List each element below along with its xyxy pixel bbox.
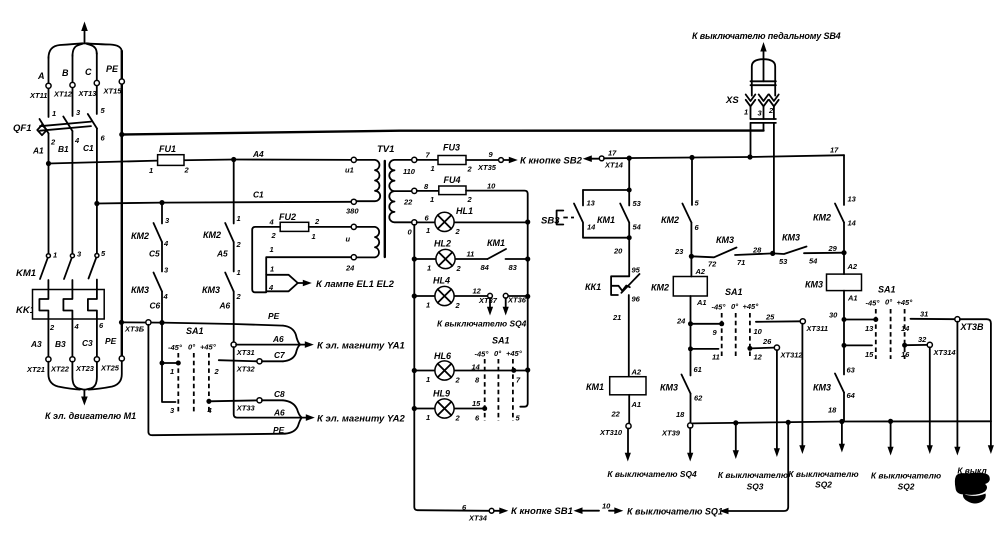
svg-text:XT25: XT25 (100, 364, 120, 373)
terminal XT36 (503, 293, 508, 298)
svg-text:КМ1: КМ1 (487, 238, 505, 248)
junction dot node 28 (770, 251, 775, 256)
wire top bus PE to XS pin3 (122, 131, 764, 135)
svg-text:К выключателю: К выключателю (871, 471, 941, 481)
svg-text:К кнопке SB2: К кнопке SB2 (520, 156, 583, 167)
svg-text:2: 2 (314, 217, 320, 226)
svg-text:PE: PE (105, 336, 117, 346)
svg-text:A2: A2 (631, 368, 642, 377)
contact KM3 72-71 labels (708, 235, 745, 269)
svg-text:64: 64 (847, 391, 856, 400)
svg-text:2: 2 (214, 367, 220, 376)
svg-text:11: 11 (712, 353, 720, 362)
wire stub 13 (844, 319, 876, 321)
arrow to YA2 (301, 414, 315, 421)
svg-text:10: 10 (754, 327, 763, 336)
svg-text:B3: B3 (55, 339, 66, 349)
svg-text:53: 53 (779, 257, 788, 266)
svg-text:FU2: FU2 (279, 212, 296, 222)
svg-text:HL6: HL6 (434, 351, 452, 361)
arrow to motor M1 (81, 390, 88, 406)
wire node20 to KK1 contact (628, 238, 630, 277)
svg-text:ХТ3В: ХТ3В (960, 322, 985, 332)
junction dot 26 on dash (747, 346, 752, 351)
switch SA1 middle positions (712, 287, 760, 359)
wire stub 11 (691, 348, 719, 350)
contact KM1 53-54 (597, 199, 642, 232)
terminal XT33 (257, 398, 262, 403)
wire XT32 to YA1 merge (262, 360, 283, 362)
svg-text:XT35: XT35 (477, 163, 497, 172)
arrow XT314 drop (927, 347, 933, 454)
svg-text:A2: A2 (695, 267, 706, 276)
svg-text:К выключателю: К выключателю (718, 470, 788, 480)
wire HL2 row (414, 258, 527, 260)
svg-text:20: 20 (613, 247, 623, 256)
svg-text:КМ3: КМ3 (782, 233, 800, 243)
junction dot 32 on dash (902, 343, 907, 348)
svg-text:XT23: XT23 (75, 364, 95, 373)
wire XT31 down to YA2 (234, 347, 301, 418)
wire node28 to node29 with contact KM3 53-54 (773, 247, 844, 255)
wire A5 column (233, 160, 235, 343)
svg-text:14: 14 (848, 219, 857, 228)
svg-text:SQ2: SQ2 (898, 482, 915, 492)
wire 22 to FU4 (417, 190, 439, 192)
core (384, 161, 386, 257)
arrow to button SB1 (494, 508, 508, 515)
svg-text:22: 22 (403, 198, 413, 207)
svg-text:24: 24 (345, 264, 355, 273)
svg-text:28: 28 (752, 246, 762, 255)
svg-text:B: B (62, 68, 69, 78)
wire node23 to KM2 coil (690, 256, 692, 276)
wire HL6 row (414, 370, 527, 372)
svg-text:2: 2 (50, 138, 56, 147)
terminal XT35 (499, 158, 504, 163)
svg-text:A6: A6 (273, 408, 285, 418)
svg-text:и: и (346, 235, 351, 244)
wire 110 to FU3 (417, 159, 438, 161)
junction dot SA1 contact1 (176, 361, 181, 366)
svg-text:84: 84 (481, 263, 490, 272)
supply arrow up (81, 22, 88, 44)
lamp HL2 (427, 239, 462, 274)
svg-text:XT22: XT22 (50, 365, 70, 374)
svg-text:380: 380 (346, 207, 359, 216)
svg-text:A3: A3 (30, 339, 42, 349)
svg-text:SA1: SA1 (186, 326, 204, 336)
svg-text:A6: A6 (219, 301, 231, 311)
svg-text:B1: B1 (58, 144, 69, 154)
svg-text:A5: A5 (216, 249, 228, 259)
svg-text:КМ3: КМ3 (660, 383, 678, 393)
terminal XT12 (70, 82, 75, 87)
terminal XT314 (927, 342, 932, 347)
contact KM1 83-84 (467, 238, 518, 272)
primary winding 1 (351, 157, 356, 162)
terminal XT34 (489, 508, 494, 513)
wire C1 down to KM1 (96, 129, 98, 254)
svg-text:КМ3: КМ3 (716, 235, 734, 245)
terminal XT14 (599, 156, 604, 161)
wire 24 tap to cable (266, 257, 351, 275)
svg-text:1: 1 (426, 301, 430, 310)
wire 10 FU4 to lamp bus (466, 191, 528, 407)
arrow down from XT39 (687, 428, 693, 462)
svg-text:XT37: XT37 (478, 296, 498, 305)
svg-text:15: 15 (472, 399, 481, 408)
fuse FU4 (430, 175, 473, 204)
junction dot 13 stub right SA1 (842, 317, 847, 322)
svg-text:+45°: +45° (743, 302, 760, 311)
wire KM1 branch down (583, 158, 629, 238)
svg-text:+45°: +45° (506, 349, 523, 358)
svg-text:14: 14 (472, 363, 481, 372)
arrow down from XT37 (478, 296, 498, 316)
svg-text:0°: 0° (731, 302, 739, 311)
primary winding 2 (351, 224, 356, 229)
svg-text:и1: и1 (345, 166, 354, 175)
switch SA1 lamp positions (475, 336, 523, 422)
connector XS (725, 42, 779, 253)
svg-text:К выключателю SQ4: К выключателю SQ4 (607, 469, 697, 479)
svg-text:4: 4 (74, 136, 80, 145)
svg-text:XS: XS (725, 95, 739, 106)
svg-text:ХТ310: ХТ310 (599, 428, 623, 437)
svg-text:26: 26 (762, 337, 772, 346)
junction dot node 23 (689, 254, 694, 259)
svg-text:ХТ33: ХТ33 (236, 404, 256, 413)
lamp HL1 (425, 206, 474, 236)
svg-text:2: 2 (271, 231, 277, 240)
svg-text:22: 22 (611, 410, 621, 419)
junction dot C6 on XT3B bus (159, 320, 164, 325)
svg-text:1: 1 (426, 413, 430, 422)
svg-text:15: 15 (865, 350, 874, 359)
wire XT3B down to PE bottom bus (148, 325, 285, 435)
svg-text:C1: C1 (253, 190, 264, 200)
svg-text:ХТ3Б: ХТ3Б (124, 325, 145, 334)
terminal XT311 (800, 319, 805, 324)
svg-text:-45°: -45° (866, 299, 881, 308)
XS arrow up to SB4 (763, 50, 765, 59)
arrow below node 64 (839, 422, 845, 453)
switch SA1 left dashed positions (168, 326, 217, 414)
junction dot mid drop (888, 419, 893, 424)
svg-text:2: 2 (467, 195, 473, 204)
junction dot C1 wire (94, 201, 99, 206)
junction dot A5 top (231, 157, 236, 162)
wires motor cable gather (48, 361, 121, 390)
terminal XT313 (955, 317, 960, 322)
wire lamp left bus from tap 0 (414, 225, 489, 511)
wire XT3B bus (122, 322, 284, 325)
arrow back from SB2 (583, 155, 600, 162)
wire phase B column (72, 55, 74, 116)
fuse FU3 (431, 143, 473, 174)
svg-text:10: 10 (602, 502, 611, 511)
svg-text:SQ3: SQ3 (747, 482, 764, 492)
terminal XT312 (774, 345, 779, 350)
svg-text:SQ2: SQ2 (815, 480, 832, 490)
svg-text:КМ2: КМ2 (131, 231, 149, 241)
arrow to lamps EL1 EL2 (298, 280, 312, 287)
svg-text:КМ3: КМ3 (131, 285, 149, 295)
svg-text:0°: 0° (885, 298, 893, 307)
svg-text:2: 2 (455, 376, 461, 385)
wire stub 15 (844, 344, 872, 346)
svg-text:31: 31 (920, 310, 928, 319)
svg-text:24: 24 (676, 317, 686, 326)
svg-text:C3: C3 (82, 338, 93, 348)
svg-text:К кнопке SB1: К кнопке SB1 (511, 506, 573, 517)
svg-text:К эл. магниту YA2: К эл. магниту YA2 (317, 414, 405, 425)
svg-text:XT11: XT11 (29, 91, 47, 100)
arrow from SB1 to SQ1 link (574, 502, 624, 515)
svg-text:ХТ32: ХТ32 (236, 365, 256, 374)
svg-text:КМ3: КМ3 (805, 280, 823, 290)
wire SA1 contact2 to XT32 (219, 360, 257, 361)
svg-text:2: 2 (455, 301, 461, 310)
svg-text:КМ2: КМ2 (661, 215, 679, 225)
svg-text:HL1: HL1 (456, 206, 473, 216)
svg-text:13: 13 (865, 324, 874, 333)
junction dots HL6 (412, 368, 417, 373)
junction dot top bus on PE (119, 132, 124, 137)
terminal XT13 (94, 80, 99, 85)
arrow XT313 drop (954, 322, 960, 456)
svg-text:К эл. двигателю М1: К эл. двигателю М1 (45, 411, 136, 421)
wire HL1 row (417, 221, 528, 223)
svg-text:TV1: TV1 (377, 144, 394, 155)
svg-text:C7: C7 (274, 350, 285, 360)
svg-text:A4: A4 (252, 149, 264, 159)
svg-text:К выключателю SQ4: К выключателю SQ4 (437, 319, 527, 329)
wire KM1 coil to XT310 (628, 395, 630, 424)
thermal relay KK1 heaters (16, 290, 104, 320)
svg-text:1: 1 (427, 264, 431, 273)
svg-text:ХТ312: ХТ312 (780, 351, 804, 360)
svg-text:23: 23 (674, 247, 684, 256)
svg-text:0°: 0° (494, 349, 502, 358)
ink smudge blob (955, 473, 990, 495)
svg-text:29: 29 (828, 244, 838, 253)
terminal XT15 (119, 79, 124, 84)
svg-text:FU1: FU1 (159, 144, 176, 154)
wire stub 9 (691, 323, 722, 325)
svg-text:21: 21 (612, 313, 621, 322)
svg-text:XT15: XT15 (103, 87, 123, 96)
junction dots HL2 (412, 256, 417, 261)
junction dot XS pin1 on wire17 (747, 154, 752, 159)
arrow down from XT310 (625, 428, 631, 461)
lamp HL4 (426, 276, 482, 311)
wire C6 to SA1 contacts 1-3 (162, 323, 178, 402)
wire C1 to TV1 (97, 202, 352, 204)
svg-text:2: 2 (455, 227, 461, 236)
thermal contact KK1 95-96 (585, 266, 641, 304)
terminal XT31 (231, 342, 236, 347)
wire FU2 to transformer U (309, 226, 352, 228)
svg-text:A2: A2 (847, 262, 858, 271)
svg-text:A: A (37, 71, 45, 81)
svg-text:1: 1 (170, 367, 174, 376)
svg-text:-45°: -45° (712, 303, 727, 312)
svg-text:1: 1 (426, 226, 430, 235)
svg-text:4: 4 (163, 292, 169, 301)
svg-text:1: 1 (426, 375, 430, 384)
svg-text:C1: C1 (83, 143, 94, 153)
wire PE column (121, 51, 123, 358)
arrow mid drop (888, 421, 894, 455)
svg-text:17: 17 (608, 149, 617, 158)
wires KK1 to motor terminals (48, 319, 97, 357)
wire C5 column (161, 203, 163, 323)
wire SA1 contact4 to XT33 (209, 399, 257, 402)
svg-text:2: 2 (184, 166, 190, 175)
junction dot node 20 (627, 235, 632, 240)
wire XT33 to YA2 merge (262, 399, 283, 401)
wire XT31 to YA1 merge (236, 344, 299, 346)
lamp HL6 (426, 351, 521, 385)
transformer TV1 (345, 144, 417, 273)
svg-text:4: 4 (269, 218, 275, 227)
junction dot SQ3 drop (733, 420, 738, 425)
svg-text:1: 1 (270, 245, 274, 254)
svg-text:54: 54 (809, 257, 818, 266)
wire 17 bus (604, 155, 844, 158)
svg-text:К выключателю педальному SB4: К выключателю педальному SB4 (692, 31, 841, 41)
lamp HL9 (426, 389, 521, 423)
svg-text:К эл. магниту YA1: К эл. магниту YA1 (317, 341, 405, 352)
svg-text:XT21: XT21 (26, 365, 45, 374)
wire KK1 to KM1 coil (628, 295, 630, 377)
arrow from right into SQ1 (720, 425, 789, 515)
supply gather brace (49, 43, 122, 58)
junction dot node 29 (841, 250, 846, 255)
XS lower bars (751, 119, 776, 123)
svg-text:SA1: SA1 (878, 285, 896, 295)
svg-text:XT13: XT13 (78, 89, 98, 98)
svg-text:11: 11 (467, 250, 475, 259)
svg-text:16: 16 (901, 350, 910, 359)
svg-text:17: 17 (830, 146, 839, 155)
terminal XT39 (688, 423, 693, 428)
contact KM3 A6 (202, 268, 242, 311)
svg-text:96: 96 (632, 295, 641, 304)
svg-text:71: 71 (737, 258, 745, 267)
arrow bus end drop (988, 421, 994, 454)
junction dot 9 stub (688, 321, 693, 326)
svg-text:SA1: SA1 (725, 287, 743, 297)
terminal XT32 (257, 359, 262, 364)
svg-text:53: 53 (633, 199, 642, 208)
junction dot KM3 64 on bus (839, 419, 844, 424)
terminal XT3B (146, 320, 151, 325)
wire A1 down to KM1 (48, 134, 50, 255)
svg-text:КМ2: КМ2 (203, 230, 221, 240)
svg-text:C8: C8 (274, 389, 285, 399)
junction dots HL9 (412, 406, 417, 411)
svg-text:1: 1 (237, 214, 241, 223)
merge YA2 (283, 400, 302, 433)
svg-text:62: 62 (694, 394, 703, 403)
svg-text:КМ3: КМ3 (813, 383, 831, 393)
XS pin wires (751, 106, 774, 253)
svg-text:18: 18 (676, 410, 685, 419)
svg-text:2: 2 (236, 292, 242, 301)
svg-text:A1: A1 (631, 400, 642, 409)
svg-text:ХТ31: ХТ31 (236, 348, 255, 357)
junction dot wire17 KM2 branch (689, 155, 694, 160)
svg-text:К выключателю SQ1: К выключателю SQ1 (627, 507, 723, 517)
svg-text:-45°: -45° (475, 350, 490, 359)
svg-text:18: 18 (828, 406, 837, 415)
XS pin chevrons (746, 95, 756, 107)
junction dot HL1 bus (525, 219, 530, 224)
svg-text:КМ3: КМ3 (202, 285, 220, 295)
button SB3 (541, 211, 574, 227)
svg-text:КМ2: КМ2 (651, 283, 669, 293)
svg-text:14: 14 (587, 223, 596, 232)
terminal XT37 (488, 293, 493, 298)
svg-text:К выключателю: К выключателю (788, 469, 858, 479)
svg-text:14: 14 (901, 324, 910, 333)
fuse FU1 (149, 144, 190, 175)
terminal XT23 (94, 357, 99, 362)
svg-text:32: 32 (918, 335, 927, 344)
junction dot SQ1 drop (786, 420, 791, 425)
contact KM3 61-62 (660, 365, 703, 403)
svg-text:XT36: XT36 (507, 296, 527, 305)
svg-text:12: 12 (754, 353, 763, 362)
svg-text:1: 1 (312, 232, 316, 241)
svg-text:72: 72 (708, 260, 717, 269)
contact KM2 13-14 (813, 195, 857, 228)
svg-text:SA1: SA1 (492, 336, 510, 346)
contact KM2 5-6 (661, 199, 700, 233)
svg-text:КК1: КК1 (585, 282, 601, 292)
svg-text:1: 1 (431, 164, 435, 173)
svg-text:63: 63 (847, 366, 856, 375)
svg-text:FU4: FU4 (444, 175, 461, 185)
contact KM3 63-64 (813, 366, 856, 415)
svg-text:ХТ34: ХТ34 (468, 514, 488, 523)
junction dot 11 stub (688, 346, 693, 351)
svg-text:30: 30 (829, 311, 838, 320)
wire 32 to XT314 (905, 344, 928, 346)
svg-text:4: 4 (207, 406, 213, 415)
svg-text:25: 25 (765, 313, 775, 322)
svg-text:2: 2 (467, 165, 473, 174)
svg-text:КМ1: КМ1 (586, 382, 604, 392)
arrow SQ3 drop (733, 423, 739, 459)
svg-text:HL2: HL2 (434, 239, 451, 249)
wire 25 to XT311 (756, 320, 801, 323)
wire XT313 right corner (960, 319, 991, 421)
terminal XT11 (46, 83, 51, 88)
coil KM2 (651, 267, 707, 307)
svg-text:PE: PE (273, 425, 285, 435)
contact KM2 A5 (203, 214, 242, 259)
fuse FU2 and lamp loop (269, 212, 321, 241)
svg-text:0°: 0° (188, 343, 196, 352)
svg-text:12: 12 (473, 287, 482, 296)
terminal XT310 (626, 423, 631, 428)
junction dot XT3B bus on PE (119, 320, 124, 325)
wire phase A column (48, 57, 50, 117)
